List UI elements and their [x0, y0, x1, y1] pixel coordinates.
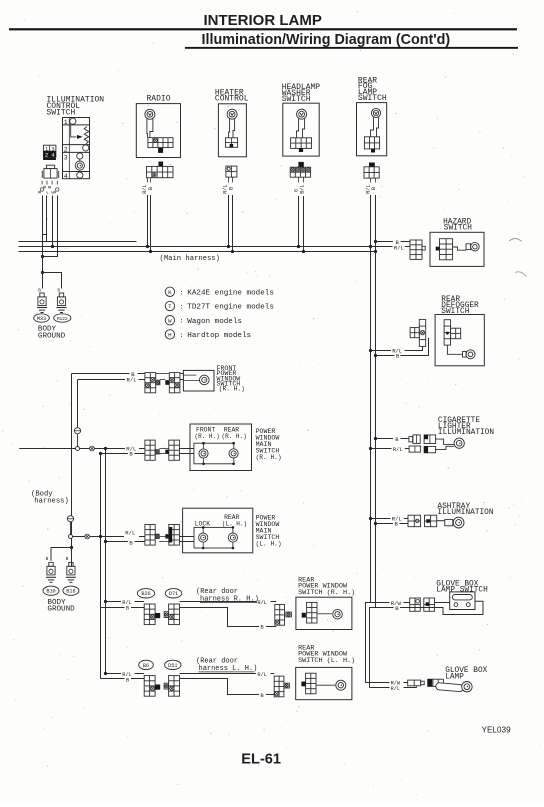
in-line connector symbols on vertical B	[74, 428, 80, 434]
rear power window switch (L.H.) box	[296, 667, 352, 699]
svg-text:Wagon models: Wagon models	[187, 318, 242, 326]
svg-text:INTERIOR LAMP: INTERIOR LAMP	[204, 12, 322, 29]
cigarette lamp wire	[436, 439, 454, 445]
row2 connector grid 2	[169, 440, 180, 460]
cigarette B connector pair	[409, 437, 413, 442]
row5 door connector grid	[274, 676, 284, 697]
glove switch R/W wire	[366, 602, 390, 604]
main switch inner contact frame	[194, 443, 234, 464]
fog in-box connector	[364, 137, 379, 149]
wire to switch	[435, 602, 450, 604]
defogger switch wire	[447, 345, 462, 354]
defogger B wire	[374, 354, 377, 357]
cigarette lamp	[454, 438, 464, 448]
power window main switch (R.H.) box	[190, 424, 252, 471]
row4 door connector grid	[275, 605, 285, 626]
svg-text:R/L: R/L	[257, 672, 267, 678]
wiper arrow + wire	[71, 125, 77, 137]
heater lamp leads	[229, 119, 230, 138]
hazard harness connector	[410, 240, 422, 259]
svg-text::: :	[180, 289, 184, 296]
connector id D51	[165, 660, 181, 669]
front power window switch (R.H.) box	[183, 370, 214, 391]
svg-text:harness): harness)	[34, 498, 69, 506]
washer wires down	[298, 177, 300, 182]
body ground connector M122 leg	[59, 293, 63, 297]
svg-text:SWITCH: SWITCH	[47, 109, 76, 118]
svg-text:ILLUMINATION: ILLUMINATION	[438, 429, 494, 437]
connector id M122	[54, 314, 71, 322]
svg-text:Hardtop models: Hardtop models	[187, 332, 251, 340]
washer illumination lamp	[297, 109, 307, 119]
hazard switch contact wire	[453, 247, 466, 250]
row3 connector grid 2 (keyed column)	[169, 525, 180, 546]
svg-text:R/L: R/L	[127, 377, 137, 384]
defogger in-box connector	[444, 320, 451, 345]
body ground connector M33 leg	[40, 293, 44, 297]
svg-text:B18: B18	[66, 589, 75, 595]
left bus vertical B	[77, 380, 79, 428]
main harness line C	[19, 251, 376, 253]
row3 R/L wire	[72, 536, 85, 538]
main switch inner contact frame	[194, 527, 233, 548]
svg-text:SWITCH: SWITCH	[441, 308, 469, 316]
svg-text:B10: B10	[46, 589, 55, 595]
svg-text:(R. H.): (R. H.)	[195, 433, 220, 440]
branch to body ground legs	[42, 257, 44, 273]
row4 connector grid 2	[164, 612, 169, 618]
glove lamp R/W wire	[366, 682, 390, 684]
pin 4 contact circle	[77, 172, 83, 178]
row3 connector black key	[165, 534, 169, 538]
glove switch connector grid 2	[424, 598, 435, 611]
pin 3 contact circle	[77, 153, 83, 159]
svg-text:D51: D51	[168, 663, 177, 669]
legend H	[165, 330, 174, 339]
glove switch B wire	[376, 607, 394, 609]
wire pin4	[57, 196, 59, 257]
defogger R/L wire	[369, 349, 372, 352]
fog illumination lamp	[371, 108, 380, 117]
svg-text:1: 1	[64, 119, 68, 126]
ashtray connector grid 2	[425, 515, 437, 527]
svg-text:W: W	[168, 317, 172, 324]
ashtray connector grid 1	[408, 515, 421, 527]
row4 B wire	[101, 607, 125, 609]
illumination switch wires down to main harness	[41, 181, 43, 185]
fog lamp leads	[371, 117, 374, 137]
ashtray B wire	[374, 522, 377, 525]
headlamp washer switch box	[283, 103, 319, 156]
feeder wire B vertical	[100, 454, 102, 679]
cigarette B wire	[374, 437, 377, 440]
scan curl mark 1	[509, 239, 521, 242]
rear fog lamp switch box	[357, 103, 387, 156]
row5 B wire loop to switch	[180, 679, 260, 695]
pin 1 contact circle	[70, 118, 76, 124]
radio lamp leads	[146, 118, 149, 137]
svg-text:B: B	[66, 556, 69, 562]
svg-text:EL-61: EL-61	[241, 751, 281, 767]
svg-text:CONTROL: CONTROL	[215, 95, 249, 104]
cigarette R/L connector pair	[409, 446, 421, 452]
row1 connector black key	[165, 380, 169, 385]
row2 connector black key	[165, 450, 169, 454]
svg-text:B: B	[148, 187, 154, 190]
svg-text:B6: B6	[143, 663, 149, 669]
bus junction dots	[51, 245, 54, 248]
header rule 2	[185, 47, 518, 49]
row1 connector grid 1	[145, 373, 156, 393]
radio wires to main harness	[147, 178, 149, 183]
row4 R/L wire	[104, 600, 107, 603]
main harness line A (short, top-left)	[19, 241, 137, 243]
heater illumination lamp	[227, 109, 237, 119]
svg-text:(L. H.): (L. H.)	[256, 541, 282, 548]
svg-text:3: 3	[64, 154, 68, 161]
svg-text:R/L: R/L	[257, 600, 267, 606]
connector id M33	[34, 314, 50, 322]
svg-text:B: B	[371, 187, 377, 190]
row5 B wire	[101, 678, 125, 680]
fog harness connector	[369, 163, 375, 167]
row2 connector grid 1	[145, 440, 155, 460]
glove lamp connector 2	[428, 679, 444, 686]
svg-text:B: B	[47, 186, 53, 189]
svg-text:YEL039: YEL039	[482, 726, 512, 735]
heater harness connector	[226, 166, 237, 177]
svg-text:T: T	[168, 303, 172, 310]
svg-text:GROUND: GROUND	[38, 332, 66, 340]
svg-text:(R. H.): (R. H.)	[219, 386, 245, 393]
svg-text:H: H	[168, 332, 172, 339]
defogger harness connector (cross)	[419, 319, 425, 346]
svg-text:B: B	[229, 187, 235, 190]
row1 wire R/L	[78, 379, 126, 381]
connector id D71	[165, 589, 181, 598]
svg-text:D71: D71	[169, 591, 178, 597]
svg-text:R/L: R/L	[393, 446, 403, 453]
svg-text:B: B	[261, 693, 264, 699]
ground symbol left	[37, 307, 47, 309]
radio connector black key	[158, 148, 163, 153]
fog wires down (become right-side bus)	[370, 178, 372, 182]
radio harness connector grid C1	[159, 162, 164, 167]
svg-text:(R. H.): (R. H.)	[256, 454, 282, 461]
svg-text:K: K	[168, 289, 172, 296]
svg-text:M122: M122	[57, 316, 68, 322]
row1 connector grid 2	[169, 373, 180, 393]
in-line connector symbols on vertical A	[67, 516, 73, 522]
ground symbol right	[57, 307, 67, 309]
svg-text:TD27T engine models: TD27T engine models	[187, 304, 274, 312]
washer in-box connector	[291, 138, 312, 149]
row5 R/L wire	[104, 672, 107, 675]
row4 R/L wire to switch	[180, 601, 257, 603]
heater wires down	[228, 177, 230, 182]
legend T	[165, 301, 174, 310]
heater in-box connector	[226, 138, 238, 148]
left bus vertical A	[71, 374, 73, 567]
svg-text:GROUND: GROUND	[47, 606, 75, 614]
svg-text:RADIO: RADIO	[147, 94, 171, 103]
ashtray R/L wire	[369, 517, 372, 520]
svg-text:R/L: R/L	[142, 184, 148, 193]
radio box	[136, 104, 180, 158]
row2 R/L wire from page-left	[19, 448, 75, 450]
washer harness connector	[298, 162, 303, 167]
pin 2 contact circle	[83, 145, 89, 151]
svg-text:Illumination/Wiring Diagram (C: Illumination/Wiring Diagram (Cont'd)	[202, 32, 451, 48]
svg-text:4: 4	[51, 151, 55, 158]
ashtray lamp	[453, 517, 464, 528]
feeder wire R/L vertical	[105, 449, 107, 674]
connector id B6	[139, 660, 154, 669]
svg-text:4: 4	[64, 173, 68, 180]
svg-text:(L. H.): (L. H.)	[222, 520, 247, 527]
svg-text:R/L: R/L	[125, 529, 135, 536]
branch wire to bottom body ground	[70, 546, 73, 549]
glove switch B wire loop under box	[400, 601, 483, 614]
wire pin1	[42, 196, 44, 257]
wire pin4 joins pin1 below bus	[43, 247, 58, 257]
rheostat resistor zigzag	[84, 127, 89, 144]
right bus outer vertical wire	[366, 195, 371, 683]
defogger indicator	[463, 352, 467, 358]
cigarette R/L wire	[369, 447, 372, 450]
washer lamp leads	[297, 119, 299, 138]
svg-text:SWITCH: SWITCH	[358, 94, 387, 103]
glove switch connector grid 1	[410, 598, 421, 611]
row4 connector grid 1	[144, 604, 155, 625]
svg-text:ILLUMINATION: ILLUMINATION	[437, 509, 493, 517]
row5 R/L wire to switch	[180, 673, 257, 675]
svg-text:B: B	[261, 624, 264, 630]
illumination control switch box S1	[63, 118, 90, 179]
svg-text::: :	[180, 318, 184, 325]
svg-text:SWITCH: SWITCH	[444, 225, 472, 233]
connector marker	[90, 446, 95, 451]
glove lamp R/L wire	[370, 687, 390, 689]
row5 connector grid 2	[164, 683, 169, 689]
svg-text:M33: M33	[37, 316, 46, 322]
main harness line B	[19, 246, 393, 248]
heater control box	[218, 104, 246, 157]
scan curl mark 2	[515, 272, 527, 277]
row3 connector grid 1	[145, 525, 155, 546]
power window main switch (L.H.) box	[183, 508, 253, 553]
connector id B26	[137, 589, 154, 598]
hazard B stub	[374, 240, 377, 243]
ashtray lamp wire	[437, 520, 445, 522]
svg-text:SWITCH: SWITCH	[282, 95, 311, 104]
svg-text:B26: B26	[141, 591, 150, 597]
body ground connector B18 leg	[69, 562, 73, 566]
svg-text:SWITCH (R. H.): SWITCH (R. H.)	[298, 589, 355, 597]
right bus inner vertical wire	[370, 195, 376, 688]
rear defogger switch box	[435, 315, 484, 366]
row3 B wire	[106, 541, 129, 543]
rear power window switch (R.H.) box	[296, 597, 352, 629]
glove lamp connector 1	[408, 680, 421, 686]
legend W	[165, 316, 174, 325]
row4 B wire loop to switch	[180, 608, 260, 627]
svg-text:R/L: R/L	[391, 686, 400, 692]
glove lamp body	[436, 683, 464, 692]
header rule 1	[9, 28, 517, 30]
svg-text:B: B	[46, 556, 49, 562]
illumination switch harness connector	[46, 165, 54, 168]
svg-text:(R. H.): (R. H.)	[222, 433, 247, 440]
svg-text:2: 2	[45, 151, 49, 158]
svg-text:KA24E engine models: KA24E engine models	[187, 289, 274, 297]
lamp symbol inside switch	[79, 159, 81, 172]
radio in-box connector grid	[148, 138, 173, 148]
cigarette R/L wire to lamp	[436, 446, 454, 449]
row5 connector grid 1	[144, 676, 155, 697]
svg-text:2: 2	[64, 147, 68, 154]
svg-text::: :	[180, 304, 184, 311]
svg-text:B: B	[126, 677, 129, 683]
glove box lamp switch body	[450, 592, 475, 610]
body ground connector B10 leg	[49, 562, 53, 566]
radio illumination lamp	[145, 109, 155, 119]
window motor lamp symbol	[200, 375, 210, 385]
hazard in-box connector	[440, 239, 453, 260]
hazard indicator	[466, 244, 471, 250]
svg-text:B/L: B/L	[299, 184, 305, 193]
row1 wire B	[72, 373, 130, 375]
svg-text:(Main harness): (Main harness)	[160, 255, 220, 263]
window lamp symbols	[203, 443, 205, 449]
legend K	[165, 287, 174, 296]
wire pin3	[52, 196, 54, 247]
svg-text:LAMP SWITCH: LAMP SWITCH	[436, 587, 488, 595]
svg-text:B: B	[126, 606, 129, 612]
svg-text:SWITCH (L. H.): SWITCH (L. H.)	[298, 657, 355, 665]
wire pin2 (jogs onto pin1 line)	[46, 196, 48, 242]
row2 B wire	[101, 453, 129, 455]
hazard switch box	[430, 232, 484, 266]
illumination switch connector pin-block 1 3 / 2 4	[43, 145, 56, 157]
svg-text:LAMP: LAMP	[445, 674, 464, 682]
svg-text::: :	[180, 332, 184, 339]
